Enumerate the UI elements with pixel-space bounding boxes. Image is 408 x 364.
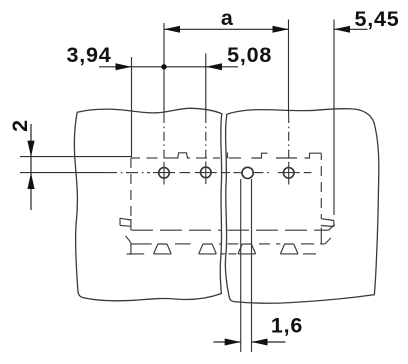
svg-text:3,94: 3,94	[66, 43, 111, 67]
svg-text:a: a	[221, 6, 234, 30]
svg-text:5,08: 5,08	[227, 43, 272, 67]
svg-text:1,6: 1,6	[271, 314, 303, 338]
svg-text:2: 2	[8, 119, 32, 132]
svg-text:5,45: 5,45	[354, 7, 399, 31]
